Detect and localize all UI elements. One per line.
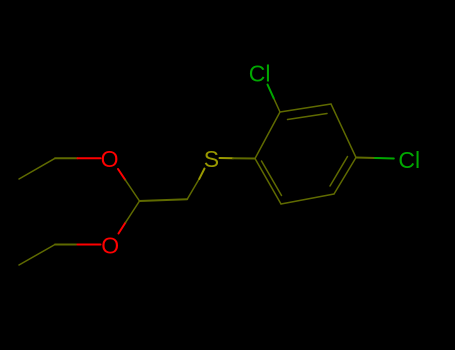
bond S-C1 sulfur half [220, 157, 234, 159]
svg-text:O: O [101, 232, 119, 258]
ring bond C5-C6 [281, 194, 334, 204]
bond CH3a-CH2a [19, 158, 55, 179]
bond CH2b-O2 oxygen half [78, 244, 101, 246]
ring inner double bond C6-C1 [262, 161, 282, 196]
bond O1-CH oxygen half [118, 169, 125, 180]
bond O2-CH carbon half [126, 201, 140, 223]
ring bond C4-C5 [334, 158, 356, 195]
bond CH-CH2 [140, 199, 188, 201]
svg-text:Cl: Cl [398, 147, 420, 173]
bond C2-Cl carbon half [274, 98, 280, 112]
bond C4-Cl chlorine half [375, 157, 394, 160]
ring bond C2-C3 [280, 104, 331, 112]
bond CH3b-CH2b [19, 245, 55, 266]
bond O1-CH carbon half [125, 180, 139, 201]
ring inner double bond C2-C3 [288, 114, 328, 120]
bond CH2a-O1 oxygen half [78, 157, 101, 159]
ring bond C6-C1 [255, 159, 281, 205]
svg-text:Cl: Cl [249, 61, 271, 87]
bond S-C1 carbon half [233, 157, 255, 159]
ring inner double bond C4-C5 [330, 157, 348, 187]
bond O2-CH oxygen half [119, 223, 126, 234]
svg-text:O: O [101, 146, 119, 172]
bond CH2a-O1 carbon half [55, 157, 78, 159]
bond CH2-S carbon half [187, 179, 199, 199]
bond C2-Cl chlorine half [268, 85, 274, 99]
bond CH2-S sulfur half [199, 169, 204, 179]
ring bond C1-C2 [255, 112, 280, 159]
bond CH2b-O2 carbon half [55, 244, 78, 246]
svg-text:S: S [204, 146, 219, 172]
bond C4-Cl carbon half [356, 157, 375, 160]
ring bond C3-C4 [331, 104, 356, 158]
